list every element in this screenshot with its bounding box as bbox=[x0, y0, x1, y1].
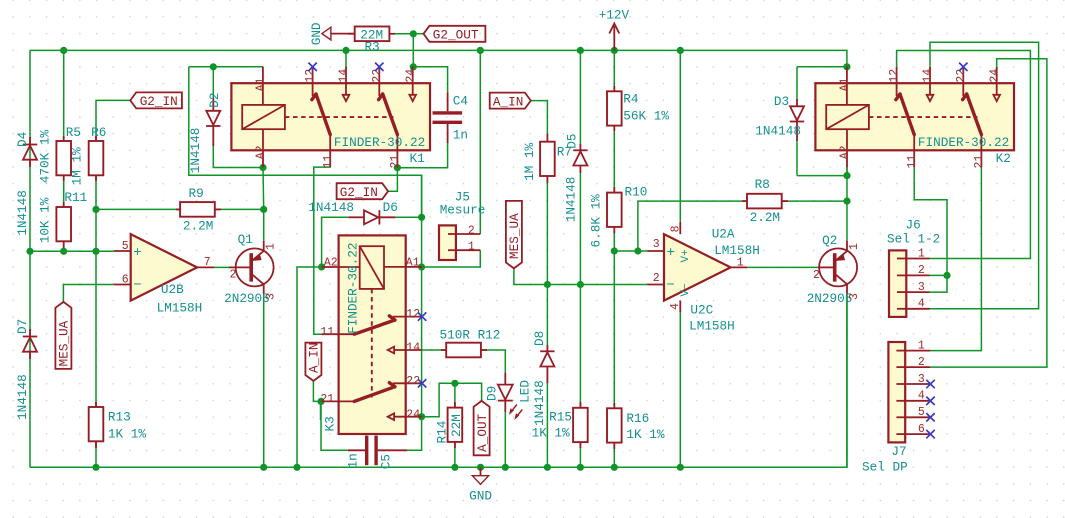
svg-text:LED: LED bbox=[517, 380, 532, 403]
svg-text:K1: K1 bbox=[410, 151, 425, 166]
capacitor C5 bbox=[348, 436, 407, 466]
wire D3 bottom row to K2 A2 bbox=[797, 175, 847, 177]
svg-text:D3: D3 bbox=[774, 94, 789, 109]
wire bottom GND rail bbox=[30, 293, 847, 467]
wire G2_IN to R6 bbox=[96, 100, 130, 141]
no-connect J7 pin5 bbox=[926, 413, 934, 421]
svg-text:3: 3 bbox=[918, 373, 925, 386]
global label A_IN top bbox=[490, 93, 531, 110]
svg-text:2: 2 bbox=[468, 224, 475, 237]
resistor R16 bbox=[607, 403, 622, 449]
wire K3 A1 column bbox=[421, 175, 423, 417]
transistor Q1 bbox=[229, 241, 274, 294]
svg-text:1K 1%: 1K 1% bbox=[532, 425, 570, 440]
no-connect J7 pin6 bbox=[926, 430, 934, 438]
svg-text:2: 2 bbox=[918, 264, 925, 277]
wire Q2 emitter bbox=[846, 294, 848, 467]
wire Q1 emitter to rail bbox=[263, 294, 265, 467]
svg-text:Q1: Q1 bbox=[238, 232, 253, 247]
no-connect K1 pin22 bbox=[375, 63, 383, 71]
wire C5 left column bbox=[320, 401, 322, 420]
svg-text:A2: A2 bbox=[324, 256, 338, 269]
svg-text:470K 1%: 470K 1% bbox=[38, 130, 53, 184]
svg-text:D8: D8 bbox=[532, 331, 547, 346]
svg-text:U2C: U2C bbox=[690, 303, 713, 318]
global label G2_IN at K1 pin21 bbox=[337, 183, 389, 200]
svg-text:Mesure: Mesure bbox=[440, 202, 486, 217]
no-connect K1 pin12 bbox=[308, 63, 316, 71]
resistor R5 bbox=[56, 136, 71, 181]
wire J6 pin2 stub bbox=[930, 274, 948, 276]
svg-text:1: 1 bbox=[468, 241, 475, 254]
svg-text:6: 6 bbox=[918, 423, 925, 436]
svg-text:A1: A1 bbox=[406, 256, 420, 269]
svg-text:Sel 1-2: Sel 1-2 bbox=[887, 232, 940, 247]
svg-text:FINDER-30.22: FINDER-30.22 bbox=[345, 243, 360, 334]
wire MES_UA flag row to U2A pin2 bbox=[514, 268, 647, 284]
svg-text:2: 2 bbox=[918, 356, 925, 369]
wire U2B pin6 to MES_UA bbox=[63, 285, 113, 303]
svg-text:3: 3 bbox=[848, 293, 861, 300]
svg-text:FINDER-30.22: FINDER-30.22 bbox=[918, 135, 1009, 150]
resistor R11 bbox=[56, 202, 71, 248]
svg-text:1: 1 bbox=[265, 243, 278, 250]
svg-text:2N2905: 2N2905 bbox=[807, 291, 853, 306]
no-connect K2 pin22 bbox=[959, 63, 967, 71]
resistor R13 bbox=[89, 402, 104, 448]
svg-text:J6: J6 bbox=[906, 218, 921, 233]
wire R9 row bbox=[96, 208, 180, 210]
svg-text:2.2M: 2.2M bbox=[750, 210, 780, 225]
svg-text:A2: A2 bbox=[254, 145, 267, 159]
wire A_IN label to R7 bbox=[531, 101, 548, 136]
resistor R4 bbox=[607, 86, 622, 131]
resistor R14 bbox=[448, 402, 463, 448]
svg-text:56K 1%: 56K 1% bbox=[623, 109, 669, 124]
wire D8 to rail bbox=[546, 382, 548, 467]
svg-text:R16: R16 bbox=[626, 411, 649, 426]
svg-text:LM158H: LM158H bbox=[714, 243, 760, 258]
svg-text:A1: A1 bbox=[254, 77, 267, 91]
wire D3 top lead bbox=[796, 67, 798, 99]
svg-text:5: 5 bbox=[122, 240, 129, 253]
svg-text:U2B: U2B bbox=[161, 282, 184, 297]
relay K3 bbox=[320, 235, 422, 434]
no-connect K3 pin22 bbox=[418, 379, 426, 387]
svg-text:22M: 22M bbox=[449, 414, 464, 437]
wire D2 bypass to K3 coil bbox=[189, 67, 422, 218]
wire K3 pin21 to C5 left bbox=[321, 401, 348, 450]
wire K3 A2 to left bypass bbox=[297, 267, 322, 467]
wire K3 pin14 to R12 bbox=[422, 349, 446, 351]
svg-text:+: + bbox=[667, 245, 675, 261]
wire D5 to R15 bbox=[579, 172, 581, 408]
U2B input pins bbox=[114, 251, 214, 285]
wire R4 to R10 bbox=[613, 126, 615, 193]
svg-text:4: 4 bbox=[669, 303, 682, 310]
svg-text:LM158H: LM158H bbox=[157, 301, 203, 316]
svg-text:R5: R5 bbox=[66, 125, 81, 140]
U2A pins bbox=[647, 222, 747, 312]
svg-text:D5: D5 bbox=[564, 133, 579, 148]
svg-text:R11: R11 bbox=[64, 190, 87, 205]
wire K2 pin24 to J7 pin2 bbox=[930, 59, 1047, 367]
wire U2B output to Q1 base bbox=[214, 266, 229, 268]
connector J7 bbox=[888, 342, 930, 442]
svg-text:D7: D7 bbox=[15, 319, 30, 334]
svg-text:U2A: U2A bbox=[712, 226, 735, 241]
svg-text:510R R12: 510R R12 bbox=[440, 328, 501, 343]
svg-text:2.2M: 2.2M bbox=[183, 219, 213, 234]
wire R10 to pin3 node bbox=[613, 227, 615, 251]
svg-text:6: 6 bbox=[122, 273, 129, 286]
wire K2 A2 below pin bbox=[846, 167, 848, 176]
svg-text:2: 2 bbox=[813, 269, 820, 282]
svg-text:5: 5 bbox=[918, 406, 925, 419]
svg-text:MES_UA: MES_UA bbox=[57, 320, 72, 366]
svg-text:1N4148: 1N4148 bbox=[15, 374, 30, 420]
svg-text:A_IN: A_IN bbox=[493, 94, 523, 109]
wire G2_OUT node to K1 pin24 bbox=[413, 34, 447, 93]
wire D5 column top bbox=[579, 50, 581, 144]
svg-text:R8: R8 bbox=[755, 177, 770, 192]
svg-text:1K 1%: 1K 1% bbox=[108, 426, 146, 441]
wire U2A pin8 supply column bbox=[679, 50, 681, 222]
svg-text:G2_IN: G2_IN bbox=[340, 185, 378, 200]
op-amp U2B bbox=[131, 234, 197, 300]
wire R15 to rail bbox=[579, 442, 581, 467]
wire R4 column top bbox=[613, 50, 615, 91]
svg-text:R10: R10 bbox=[625, 184, 648, 199]
svg-text:D6: D6 bbox=[383, 200, 398, 215]
wire pin3 row bbox=[614, 250, 647, 252]
diode D8 bbox=[540, 345, 554, 383]
svg-text:G2_OUT: G2_OUT bbox=[433, 28, 479, 43]
wire R14 top bbox=[454, 383, 456, 407]
svg-text:A2: A2 bbox=[838, 145, 851, 159]
svg-text:7: 7 bbox=[204, 256, 211, 269]
wire K2 pin14 to J6 pin4 bbox=[930, 42, 1039, 309]
op-amp U2A bbox=[664, 234, 731, 300]
svg-text:1K 1%: 1K 1% bbox=[626, 427, 664, 442]
svg-text:8: 8 bbox=[670, 225, 683, 232]
svg-text:1: 1 bbox=[918, 339, 925, 352]
svg-text:4: 4 bbox=[918, 298, 925, 311]
svg-text:A_IN: A_IN bbox=[307, 343, 322, 373]
wire D2 top lead bbox=[212, 67, 214, 98]
relay K2 bbox=[815, 67, 1014, 169]
capacitor C4 bbox=[433, 92, 463, 143]
resistor R8 bbox=[742, 194, 788, 209]
power GND bottom bbox=[472, 467, 488, 484]
svg-text:+12V: +12V bbox=[599, 8, 630, 23]
wire R16 column bbox=[613, 251, 615, 408]
wire R14 bottom bbox=[454, 442, 456, 467]
wire R13 to rail bbox=[95, 441, 97, 467]
svg-text:V−: V− bbox=[680, 283, 692, 296]
wire R8 right to K2 A2 node bbox=[782, 200, 847, 202]
connector J5 bbox=[439, 225, 480, 260]
wire K2 pin21 to J7 pin1 bbox=[930, 167, 981, 351]
diode D3 bbox=[790, 99, 804, 141]
resistor R9 bbox=[176, 202, 221, 217]
wire K1 coil A1 net bbox=[189, 66, 263, 68]
wire A2 to R9 node bbox=[262, 168, 265, 210]
svg-text:R3: R3 bbox=[365, 39, 380, 54]
wire LED D9 to rail bbox=[504, 412, 506, 467]
diode D6 bbox=[349, 210, 396, 224]
svg-text:K2: K2 bbox=[996, 151, 1011, 166]
resistor R3 bbox=[348, 27, 395, 42]
wire K1 pin21 to G2_IN flag bbox=[388, 168, 397, 192]
global label MES_UA at J5 bbox=[506, 201, 522, 269]
resistor R15 bbox=[573, 402, 588, 448]
svg-text:D9: D9 bbox=[484, 386, 499, 401]
svg-text:2: 2 bbox=[653, 272, 660, 285]
svg-text:3: 3 bbox=[918, 281, 925, 294]
svg-text:−: − bbox=[133, 278, 141, 294]
global label G2_OUT bbox=[424, 26, 486, 43]
svg-text:−: − bbox=[667, 278, 675, 294]
wire K2 pin11 to J6 pin2 pin3 bbox=[914, 167, 947, 292]
svg-text:3: 3 bbox=[265, 293, 278, 300]
LED D9 bbox=[498, 373, 522, 418]
svg-text:1N4148: 1N4148 bbox=[755, 124, 801, 139]
svg-text:2: 2 bbox=[230, 269, 237, 282]
svg-text:FINDER-30.22: FINDER-30.22 bbox=[334, 135, 425, 150]
svg-text:1: 1 bbox=[848, 243, 861, 250]
wire D6 left to K3 A2 bbox=[322, 217, 349, 267]
wire K1 pin14 to rail bbox=[345, 50, 347, 67]
svg-text:A_OUT: A_OUT bbox=[475, 413, 490, 451]
wire D3 bottom lead bbox=[796, 140, 798, 176]
no-connect J7 pin4 bbox=[926, 397, 934, 405]
svg-text:K3: K3 bbox=[323, 416, 338, 431]
svg-text:MES_UA: MES_UA bbox=[507, 213, 522, 259]
resistor R7 bbox=[540, 134, 555, 183]
svg-text:10K 1%: 10K 1% bbox=[38, 197, 53, 243]
diode D7 bbox=[23, 329, 37, 359]
resistor R12 bbox=[441, 343, 487, 358]
wire K2 A2 column to Q2 collector bbox=[846, 167, 848, 241]
wire R6 to R13 column bbox=[95, 175, 97, 407]
wire R12 to LED D9 bbox=[481, 350, 505, 373]
svg-text:Q2: Q2 bbox=[822, 233, 837, 248]
svg-text:D2: D2 bbox=[207, 93, 222, 108]
wire left border D4/D7 column bbox=[29, 50, 31, 467]
wire R3 to G2_OUT node bbox=[389, 33, 423, 35]
svg-text:1N4148: 1N4148 bbox=[308, 200, 354, 215]
resistor R6 bbox=[89, 136, 104, 181]
wire K1 pin21 row to C4 bbox=[397, 142, 447, 168]
global label MES_UA left bbox=[55, 302, 71, 369]
svg-text:R6: R6 bbox=[91, 125, 106, 140]
wire R5 R11 column bbox=[63, 50, 65, 251]
svg-text:Sel DP: Sel DP bbox=[862, 459, 908, 474]
global label A_OUT bbox=[474, 401, 490, 455]
wire J5 pin2 column bbox=[479, 50, 481, 234]
svg-text:G2_IN: G2_IN bbox=[140, 94, 178, 109]
diode D4 bbox=[23, 137, 37, 167]
diode D2 bbox=[206, 98, 220, 146]
resistor R10 bbox=[607, 187, 622, 233]
power +12V bbox=[609, 24, 619, 51]
svg-text:1M 1%: 1M 1% bbox=[522, 142, 537, 180]
wire D3 row to K2 A1 bbox=[797, 66, 847, 68]
no-connect J7 pin3 bbox=[926, 380, 934, 388]
svg-text:1N4148: 1N4148 bbox=[532, 380, 547, 426]
wire R16 to rail bbox=[613, 443, 615, 468]
transistor Q2 bbox=[819, 241, 857, 294]
relay K1 bbox=[231, 67, 430, 169]
wire U2A pin4 to rail bbox=[679, 312, 681, 467]
svg-text:1: 1 bbox=[918, 247, 925, 260]
svg-text:1: 1 bbox=[737, 256, 744, 269]
wire U2A output to Q2 base bbox=[747, 266, 819, 268]
svg-text:D4: D4 bbox=[15, 132, 30, 147]
wire C5 right to K3 pin24 bbox=[407, 417, 422, 451]
wire A_IN flag to K3 pin21 bbox=[313, 381, 321, 402]
no-connect K3 pin12 bbox=[418, 312, 426, 320]
svg-text:GND: GND bbox=[309, 22, 324, 45]
wire D2 bottom to A2 bbox=[213, 144, 263, 168]
wire R9 to Q1 collector bbox=[215, 208, 264, 210]
wire J5 pin1 to K3 A1 bbox=[422, 250, 481, 267]
wire Q1 collector bbox=[263, 209, 265, 240]
svg-text:R13: R13 bbox=[108, 409, 131, 424]
diode D5 bbox=[573, 144, 587, 173]
svg-text:4: 4 bbox=[918, 390, 925, 403]
svg-text:+: + bbox=[133, 245, 141, 261]
wire R7 to MES_UA row bbox=[546, 182, 548, 285]
wire D8 column bbox=[546, 285, 548, 346]
svg-text:1N4148: 1N4148 bbox=[188, 128, 203, 174]
svg-text:1M 1%: 1M 1% bbox=[70, 147, 85, 185]
power GND top bbox=[322, 27, 355, 40]
svg-text:A1: A1 bbox=[838, 77, 851, 91]
global label A_IN at K3 bbox=[305, 343, 321, 381]
svg-text:LM158H: LM158H bbox=[689, 319, 735, 334]
svg-text:J7: J7 bbox=[891, 444, 906, 459]
svg-text:C4: C4 bbox=[453, 94, 468, 109]
svg-text:2N2905: 2N2905 bbox=[224, 291, 270, 306]
svg-text:1N4148: 1N4148 bbox=[563, 177, 578, 223]
svg-text:R14: R14 bbox=[434, 421, 449, 444]
wire K2 pin12 to J6 pin1 bbox=[897, 51, 1031, 259]
connector J6 bbox=[889, 250, 930, 317]
svg-text:1n: 1n bbox=[453, 127, 468, 142]
svg-text:1n: 1n bbox=[346, 453, 361, 468]
wire K3 pin24 jog to A_OUT row bbox=[422, 383, 482, 416]
svg-text:1N4148: 1N4148 bbox=[15, 190, 30, 236]
svg-text:R4: R4 bbox=[623, 92, 638, 107]
wire op-amp U2B pin5 row bbox=[30, 250, 114, 252]
svg-text:3: 3 bbox=[653, 238, 660, 251]
svg-text:GND: GND bbox=[469, 489, 492, 504]
svg-text:R15: R15 bbox=[549, 409, 572, 424]
svg-text:R9: R9 bbox=[189, 186, 204, 201]
wire D6 right lead bbox=[395, 216, 421, 218]
wire R8 left to pin3 node bbox=[638, 201, 747, 251]
wire K1 pin11 jog to K3 pin11 bbox=[314, 167, 330, 334]
svg-text:V+: V+ bbox=[680, 249, 692, 262]
global label G2_IN left bbox=[130, 92, 182, 109]
wire +12V top rail bbox=[30, 50, 847, 66]
svg-text:6.8K 1%: 6.8K 1% bbox=[589, 194, 604, 248]
svg-text:C5: C5 bbox=[379, 454, 394, 469]
